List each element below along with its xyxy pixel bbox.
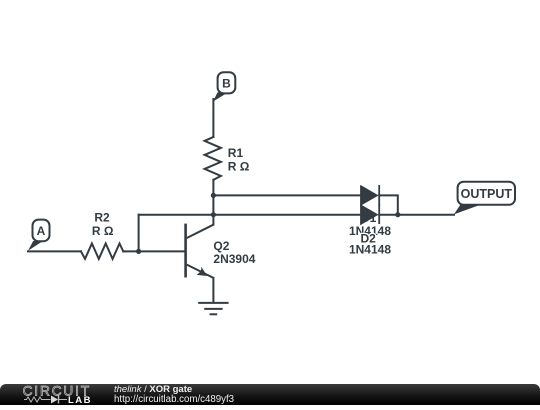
svg-text:1N4148: 1N4148 (349, 243, 391, 257)
wire junction to OUTPUT flag (398, 214, 454, 216)
resistor R2 (81, 244, 123, 259)
footer bar (0, 384, 540, 405)
wire D cathode bottom to junction (379, 214, 398, 216)
wire junction to D1 anode (213, 194, 360, 196)
resistor R1 (205, 137, 221, 180)
svg-text:B: B (222, 76, 231, 90)
diode D1 (361, 185, 380, 206)
junction at Q2 base (136, 249, 141, 254)
junction at Q2 collector (211, 212, 216, 217)
svg-text:Q2: Q2 (213, 239, 229, 253)
wire base net to D2 anode (139, 214, 361, 216)
transistor Q2 (186, 224, 214, 278)
node A flag (28, 220, 50, 251)
svg-text:R Ω: R Ω (228, 159, 250, 173)
wire R2 to Q2 base (123, 250, 184, 252)
wire A flag to R2 (28, 250, 81, 252)
svg-text:OUTPUT: OUTPUT (461, 187, 513, 201)
CircuitLab logo (20, 384, 120, 405)
svg-text:R1: R1 (228, 146, 244, 160)
junction at diode output (395, 212, 400, 217)
junction at R1 bottom (211, 193, 216, 198)
svg-text:LAB: LAB (68, 395, 92, 405)
svg-text:A: A (37, 224, 46, 238)
wire B flag to R1 (212, 99, 214, 137)
wire D cathode top elbow (379, 195, 398, 214)
wire base junction vertical riser (138, 215, 140, 252)
diode D2 (361, 205, 380, 225)
svg-text:2N3904: 2N3904 (213, 252, 255, 266)
footer breadcrumb text (114, 384, 234, 405)
svg-text:R2: R2 (94, 210, 110, 224)
ground (198, 303, 228, 314)
wire Q2 emitter to ground (212, 278, 214, 303)
wire R1 to junction (212, 180, 214, 196)
node OUTPUT flag (454, 182, 515, 215)
node B flag (213, 72, 235, 101)
svg-text:R Ω: R Ω (92, 224, 114, 238)
wire R1 junction down to Q2 collector (212, 195, 214, 224)
